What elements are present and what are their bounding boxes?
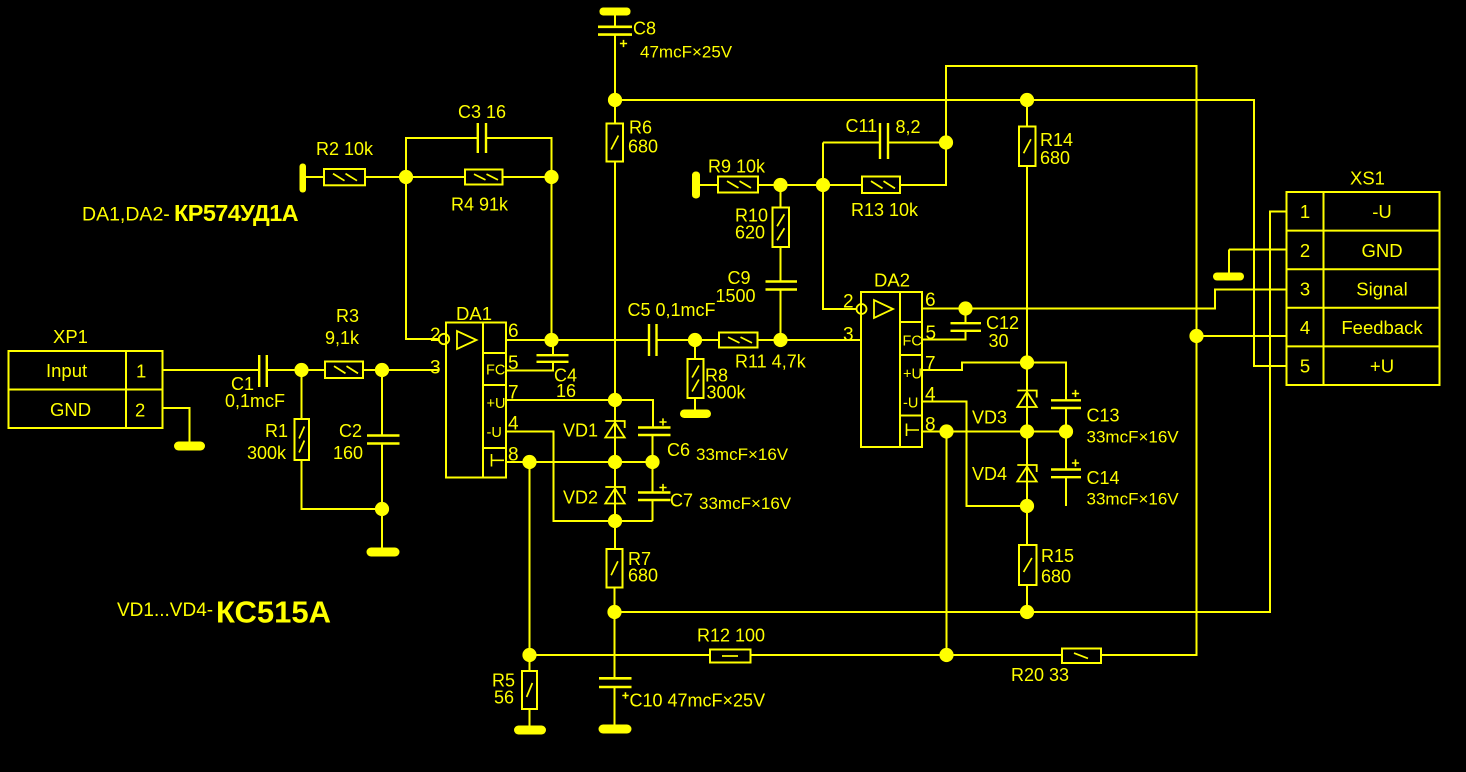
svg-text:160: 160 bbox=[333, 443, 363, 463]
svg-text:3: 3 bbox=[843, 325, 854, 346]
wire bbox=[614, 687, 616, 725]
XP1 pin 1 Input bbox=[46, 360, 146, 382]
resistor R11 4,7k bbox=[719, 333, 758, 348]
svg-text:5: 5 bbox=[926, 323, 937, 344]
node junction bbox=[608, 455, 622, 469]
svg-text:XP1: XP1 bbox=[53, 326, 88, 347]
svg-text:C12: C12 bbox=[986, 313, 1019, 333]
wire bbox=[614, 100, 616, 124]
wire bbox=[694, 398, 696, 410]
node junction bbox=[1020, 499, 1034, 513]
wire bbox=[1026, 506, 1028, 545]
svg-text:680: 680 bbox=[1040, 148, 1070, 168]
node junction bbox=[688, 333, 702, 347]
svg-text:300k: 300k bbox=[707, 383, 747, 403]
svg-text:C10 47mcF×25V: C10 47mcF×25V bbox=[630, 691, 766, 711]
wire bbox=[1026, 363, 1028, 507]
svg-text:C8: C8 bbox=[633, 19, 656, 39]
op-amp DA2 bbox=[857, 292, 923, 447]
capacitor C7 33mcF bbox=[638, 493, 671, 501]
svg-text:R1: R1 bbox=[265, 421, 288, 441]
svg-text:16: 16 bbox=[556, 381, 576, 401]
svg-text:R2 10k: R2 10k bbox=[316, 139, 374, 159]
DA2 column labels FC +U -U gnd bbox=[903, 334, 922, 412]
svg-text:C2: C2 bbox=[339, 421, 362, 441]
C8 value label bbox=[633, 19, 733, 62]
wire bbox=[922, 331, 966, 340]
wire bbox=[406, 138, 478, 177]
svg-text:C14: C14 bbox=[1087, 468, 1120, 488]
R15 value label bbox=[1041, 546, 1074, 587]
node junction bbox=[608, 514, 622, 528]
node junction bbox=[522, 455, 536, 469]
svg-text:30: 30 bbox=[989, 331, 1009, 351]
title VD1..VD4 type label bbox=[117, 595, 331, 630]
node junction bbox=[1059, 424, 1073, 438]
resistor R8 300k bbox=[688, 359, 704, 398]
terminal R2 input bbox=[300, 164, 307, 193]
svg-text:VD2: VD2 bbox=[563, 488, 598, 508]
ground R5 bbox=[514, 726, 546, 735]
svg-text:R11 4,7k: R11 4,7k bbox=[735, 352, 807, 372]
wire bbox=[1229, 249, 1287, 251]
capacitor C14 33mcF bbox=[1051, 470, 1081, 478]
ground R8 bbox=[680, 410, 711, 419]
wire bbox=[306, 176, 324, 178]
R3 value label bbox=[325, 306, 360, 348]
wire bbox=[301, 370, 303, 419]
resistor R15 680 bbox=[1019, 545, 1037, 585]
capacitor C3 16 bbox=[478, 123, 486, 153]
XS1 pin 1 -U bbox=[1300, 201, 1392, 222]
svg-text:0,1mcF: 0,1mcF bbox=[225, 391, 285, 411]
svg-text:1: 1 bbox=[136, 361, 146, 382]
svg-text:620: 620 bbox=[735, 223, 765, 243]
svg-text:2: 2 bbox=[430, 325, 441, 346]
resistor R6 680 bbox=[607, 124, 624, 162]
wire bbox=[365, 176, 465, 178]
node junction bbox=[294, 363, 308, 377]
wire bbox=[529, 462, 531, 655]
C14 value label bbox=[1087, 468, 1180, 509]
R5 value label bbox=[492, 671, 515, 708]
capacitor C4 16 bbox=[537, 355, 569, 362]
wire bbox=[530, 654, 711, 656]
wire bbox=[780, 185, 782, 208]
svg-text:R4 91k: R4 91k bbox=[451, 195, 509, 215]
wire bbox=[900, 66, 1197, 655]
wire bbox=[614, 588, 616, 613]
title DA1,DA2 type label bbox=[82, 200, 299, 226]
wire bbox=[946, 432, 948, 656]
wire bbox=[751, 654, 1063, 656]
wire bbox=[1065, 432, 1067, 470]
node junction bbox=[608, 93, 622, 107]
capacitor C9 1500 bbox=[766, 282, 798, 290]
wire bbox=[503, 176, 552, 178]
wire bbox=[652, 462, 654, 493]
svg-text:DA1: DA1 bbox=[456, 303, 492, 324]
svg-text:R15: R15 bbox=[1041, 546, 1074, 566]
node junction bbox=[1020, 355, 1034, 369]
R7 value label bbox=[628, 549, 658, 586]
node junction bbox=[939, 648, 953, 662]
svg-text:VD1...VD4-: VD1...VD4- bbox=[117, 600, 213, 621]
wire bbox=[506, 432, 653, 522]
resistor R9 10k bbox=[718, 177, 758, 193]
wire bbox=[780, 247, 782, 282]
capacitor C1 0,1mcF bbox=[259, 355, 267, 387]
svg-text:3: 3 bbox=[1300, 279, 1310, 300]
ground XP1 bbox=[174, 442, 205, 451]
svg-text:Feedback: Feedback bbox=[1341, 317, 1423, 338]
op-amp DA1 bbox=[439, 323, 506, 478]
wire bbox=[506, 362, 553, 371]
resistor R4 91k bbox=[465, 170, 503, 185]
R14 value label bbox=[1040, 130, 1073, 168]
node junction bbox=[939, 424, 953, 438]
wire bbox=[965, 309, 967, 324]
capacitor C10 47mcF bbox=[599, 678, 632, 687]
wire bbox=[1026, 166, 1028, 363]
wire bbox=[888, 142, 946, 144]
zener diode VD4 bbox=[1017, 465, 1036, 482]
svg-text:C11: C11 bbox=[846, 116, 878, 136]
svg-text:3: 3 bbox=[430, 358, 441, 379]
wire bbox=[922, 402, 1027, 507]
svg-text:КС515А: КС515А bbox=[216, 595, 331, 630]
XS1 pin 2 GND bbox=[1300, 240, 1403, 261]
svg-text:VD3: VD3 bbox=[972, 408, 1007, 428]
svg-text:4: 4 bbox=[1300, 317, 1310, 338]
svg-text:680: 680 bbox=[1041, 567, 1071, 587]
svg-text:5: 5 bbox=[1300, 356, 1310, 377]
resistor R3 9,1k bbox=[325, 362, 363, 379]
svg-text:FC: FC bbox=[903, 334, 922, 350]
resistor R7 680 bbox=[607, 549, 623, 588]
svg-text:-U: -U bbox=[1372, 201, 1392, 222]
svg-text:33mcF×16V: 33mcF×16V bbox=[699, 494, 792, 513]
C13 value label bbox=[1087, 406, 1180, 447]
node junction bbox=[1020, 93, 1034, 107]
svg-text:VD1: VD1 bbox=[563, 421, 598, 441]
svg-text:2: 2 bbox=[1300, 240, 1310, 261]
wire bbox=[1026, 585, 1028, 612]
wire bbox=[529, 709, 531, 726]
wire bbox=[758, 339, 862, 341]
wire bbox=[506, 461, 653, 463]
node junction bbox=[375, 502, 389, 516]
wire bbox=[381, 370, 383, 436]
wire bbox=[922, 363, 1027, 371]
svg-text:R9 10k: R9 10k bbox=[708, 157, 766, 177]
resistor R5 56 bbox=[522, 671, 537, 709]
svg-text:R3: R3 bbox=[336, 306, 359, 326]
node junction bbox=[608, 393, 622, 407]
capacitor C6 33mcF bbox=[638, 428, 671, 436]
wire bbox=[614, 14, 616, 27]
wire bbox=[922, 431, 1066, 433]
wire bbox=[552, 340, 554, 355]
svg-text:680: 680 bbox=[628, 137, 658, 157]
C7 value label bbox=[670, 491, 792, 514]
capacitor C11 8,2 bbox=[880, 123, 888, 159]
wire bbox=[758, 184, 862, 186]
node junction bbox=[1189, 329, 1203, 343]
ground XS1 bbox=[1213, 273, 1244, 281]
XS1 pin 5 +U bbox=[1300, 356, 1394, 377]
R8 value label bbox=[705, 366, 747, 403]
svg-text:DA1,DA2-: DA1,DA2- bbox=[82, 204, 170, 226]
node junction bbox=[544, 333, 558, 347]
svg-text:FC: FC bbox=[486, 363, 505, 379]
resistor R2 10k bbox=[324, 169, 365, 185]
wire bbox=[381, 444, 383, 549]
svg-text:-U: -U bbox=[903, 396, 918, 412]
svg-text:XS1: XS1 bbox=[1350, 168, 1385, 189]
wire bbox=[1065, 477, 1067, 506]
node junction bbox=[773, 178, 787, 192]
capacitor C13 33mcF bbox=[1051, 400, 1081, 408]
svg-text:R20 33: R20 33 bbox=[1011, 665, 1069, 685]
capacitor C12 30 bbox=[951, 323, 982, 331]
svg-text:Signal: Signal bbox=[1356, 279, 1407, 300]
node junction bbox=[399, 170, 413, 184]
svg-text:300k: 300k bbox=[247, 443, 287, 463]
resistor R14 680 bbox=[1019, 127, 1036, 167]
wire bbox=[406, 177, 439, 339]
svg-text:33mcF×16V: 33mcF×16V bbox=[1087, 428, 1180, 447]
wire bbox=[506, 339, 649, 341]
wire bbox=[614, 35, 616, 100]
svg-text:C9: C9 bbox=[728, 268, 751, 288]
wire bbox=[1026, 100, 1028, 127]
terminal R9 input bbox=[692, 172, 700, 199]
svg-text:C5 0,1mcF: C5 0,1mcF bbox=[628, 300, 716, 320]
svg-text:+U: +U bbox=[1370, 356, 1394, 377]
R6 value label bbox=[628, 118, 658, 157]
svg-text:6: 6 bbox=[508, 321, 519, 342]
wire bbox=[1065, 408, 1067, 432]
svg-text:C7: C7 bbox=[670, 491, 693, 511]
svg-text:+U: +U bbox=[903, 367, 922, 383]
svg-text:КР574УД1А: КР574УД1А bbox=[174, 200, 299, 226]
wire bbox=[529, 655, 531, 671]
DA1 column labels FC +U -U gnd bbox=[486, 363, 505, 442]
svg-text:33mcF×16V: 33mcF×16V bbox=[1087, 490, 1180, 509]
svg-text:8,2: 8,2 bbox=[896, 117, 921, 137]
wire bbox=[615, 100, 1287, 366]
wire bbox=[302, 460, 383, 509]
svg-text:C3 16: C3 16 bbox=[458, 102, 506, 122]
node junction bbox=[522, 648, 536, 662]
svg-text:R12 100: R12 100 bbox=[697, 626, 765, 646]
DA1 pin numbers bbox=[430, 321, 519, 466]
wire bbox=[652, 500, 654, 521]
R1 value label bbox=[247, 421, 288, 463]
resistor R13 10k bbox=[862, 177, 900, 194]
wire bbox=[551, 177, 553, 340]
resistor R20 33 bbox=[1062, 649, 1101, 664]
wire bbox=[780, 290, 782, 341]
svg-text:VD4: VD4 bbox=[972, 464, 1007, 484]
wire bbox=[694, 340, 696, 359]
svg-text:C6: C6 bbox=[667, 440, 690, 460]
DA2 pin numbers bbox=[843, 290, 936, 436]
ground C2/R1 bbox=[367, 548, 400, 557]
wire bbox=[506, 400, 653, 428]
svg-text:GND: GND bbox=[50, 399, 91, 420]
node junction bbox=[1020, 605, 1034, 619]
capacitor C5 0,1mcF bbox=[649, 324, 657, 356]
node junction bbox=[607, 605, 621, 619]
svg-text:C13: C13 bbox=[1087, 406, 1120, 426]
wire bbox=[652, 435, 654, 462]
svg-text:47mcF×25V: 47mcF×25V bbox=[640, 43, 733, 62]
svg-text:2: 2 bbox=[843, 292, 854, 313]
wire bbox=[363, 369, 439, 371]
XS1 pin 4 Feedback bbox=[1300, 317, 1424, 338]
wire bbox=[614, 162, 616, 550]
wire bbox=[1027, 363, 1066, 401]
wire bbox=[700, 184, 718, 186]
svg-text:R6: R6 bbox=[629, 118, 652, 138]
resistor R10 620 bbox=[773, 208, 790, 248]
wire bbox=[615, 212, 1287, 613]
wire bbox=[163, 369, 260, 371]
node junction bbox=[544, 170, 558, 184]
wire bbox=[486, 138, 552, 177]
wire bbox=[1197, 335, 1287, 337]
XS1 pin 3 Signal bbox=[1300, 279, 1408, 300]
node junction bbox=[1020, 424, 1034, 438]
zener diode VD2 bbox=[605, 487, 624, 504]
connector XS1 bbox=[1287, 192, 1440, 385]
svg-text:Input: Input bbox=[46, 360, 87, 381]
R10 value label bbox=[735, 206, 768, 243]
svg-text:GND: GND bbox=[1361, 240, 1402, 261]
ground C10 bbox=[599, 725, 632, 734]
svg-text:1: 1 bbox=[1300, 201, 1310, 222]
node junction bbox=[958, 301, 972, 315]
resistor R1 300k bbox=[295, 419, 310, 460]
svg-text:R13 10k: R13 10k bbox=[851, 200, 919, 220]
node junction bbox=[645, 455, 659, 469]
svg-text:-U: -U bbox=[487, 425, 502, 441]
wire bbox=[614, 612, 616, 678]
svg-text:DA2: DA2 bbox=[874, 270, 910, 291]
svg-text:9,1k: 9,1k bbox=[325, 328, 360, 348]
node junction bbox=[939, 135, 953, 149]
wire bbox=[163, 408, 190, 442]
resistor R12 100 bbox=[710, 650, 751, 663]
zener diode VD3 bbox=[1017, 391, 1036, 408]
wire bbox=[657, 339, 720, 341]
capacitor C2 160 bbox=[367, 436, 400, 444]
svg-text:2: 2 bbox=[135, 400, 145, 421]
zener diode VD1 bbox=[605, 421, 624, 438]
svg-text:R14: R14 bbox=[1040, 130, 1073, 150]
svg-text:7: 7 bbox=[925, 354, 936, 375]
wire bbox=[823, 142, 880, 144]
terminal C8 top bbox=[600, 8, 631, 16]
wire bbox=[1228, 250, 1230, 273]
node junction bbox=[773, 333, 787, 347]
node junction bbox=[375, 363, 389, 377]
node junction bbox=[816, 178, 830, 192]
svg-text:1500: 1500 bbox=[716, 286, 756, 306]
svg-text:56: 56 bbox=[494, 688, 514, 708]
wire bbox=[267, 369, 325, 371]
connector XP1 bbox=[9, 351, 163, 428]
XP1 pin 2 GND bbox=[50, 399, 145, 421]
svg-text:33mcF×16V: 33mcF×16V bbox=[696, 445, 789, 464]
wire bbox=[922, 290, 1287, 309]
svg-text:680: 680 bbox=[628, 566, 658, 586]
capacitor C8 47mcF bbox=[598, 27, 632, 35]
C6 value label bbox=[667, 440, 789, 464]
wire bbox=[823, 143, 857, 310]
svg-text:+U: +U bbox=[487, 396, 506, 412]
